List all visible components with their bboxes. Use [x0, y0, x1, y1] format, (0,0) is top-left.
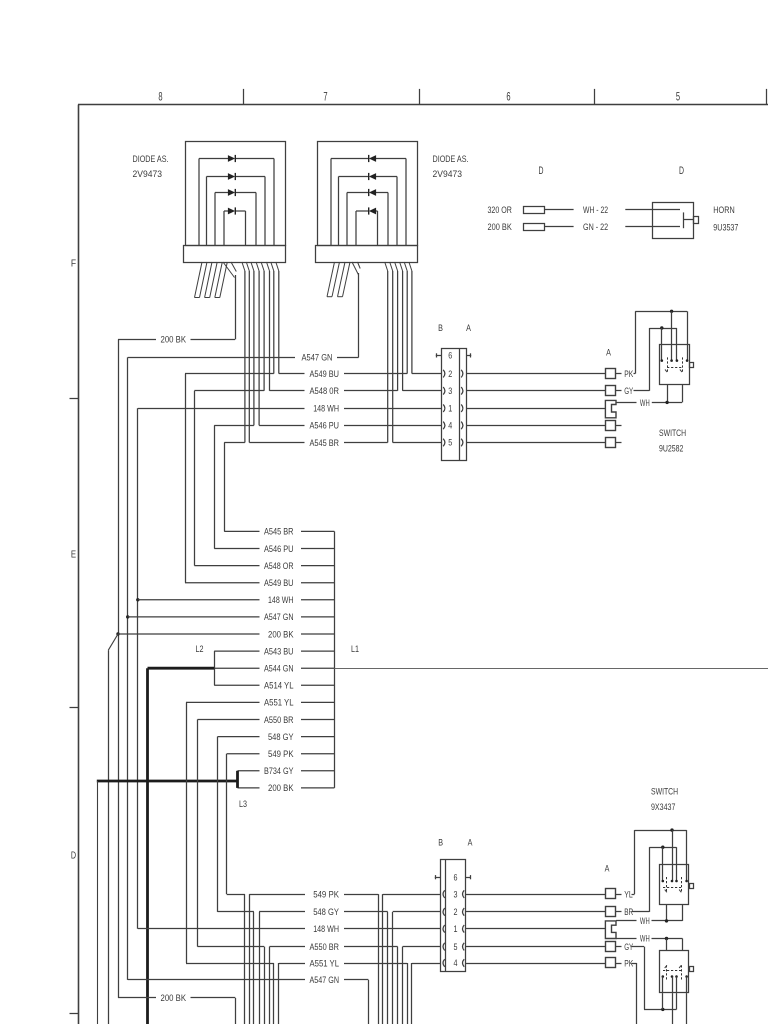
wire drop x259.1 to lower diode assembly U3	[259, 912, 261, 1024]
wire drop x278.8 to lower diode assembly U3	[278, 963, 280, 1024]
switch S3 movable contact a	[665, 965, 667, 981]
connector J1 pin 3 contacts	[443, 387, 463, 395]
wire 548 GY lower row	[218, 911, 441, 913]
svg-text:3: 3	[448, 386, 452, 397]
wire WH from clip	[616, 402, 637, 404]
svg-text:WH: WH	[640, 934, 650, 944]
svg-text:A544 GN: A544 GN	[264, 664, 294, 674]
switch S3 dashed link	[663, 970, 681, 972]
svg-text:YL: YL	[624, 889, 633, 899]
wire drop x249.3 to lower diode assembly U3	[249, 894, 251, 1024]
svg-text:B: B	[438, 837, 443, 847]
bus wire 548 GY lower vertical	[217, 737, 219, 912]
svg-text:549 PK: 549 PK	[313, 889, 339, 899]
svg-text:A549 BU: A549 BU	[310, 369, 340, 379]
svg-text:A514 YL: A514 YL	[264, 681, 294, 691]
diode D1a loop in U1	[199, 155, 274, 245]
wire switch S3 to GY link a	[662, 993, 664, 1009]
svg-text:2: 2	[454, 907, 458, 918]
svg-text:548 GY: 548 GY	[313, 907, 339, 917]
switch S2 dashed link	[663, 887, 681, 889]
bus wire A551 YL lower vertical	[186, 702, 188, 963]
svg-text:200 BK: 200 BK	[161, 335, 187, 345]
wire WH-22 into horn	[625, 209, 680, 211]
terminal connector 320 OR	[524, 207, 545, 214]
diode D2a loop in U2	[331, 155, 406, 245]
wire connector J1 pin 1 to switch terminal	[466, 408, 606, 410]
svg-text:A551 YL: A551 YL	[310, 958, 340, 968]
svg-text:HORN: HORN	[713, 205, 734, 215]
svg-text:B: B	[438, 323, 443, 333]
svg-text:6: 6	[448, 351, 452, 362]
svg-text:320 OR: 320 OR	[488, 205, 513, 215]
connector J1 pin 6 stub left	[436, 353, 441, 357]
wire connector J1 pin 3 to switch terminal	[466, 390, 606, 392]
diode assembly U2 connector strip	[316, 246, 418, 263]
wire switch S3 drop b	[686, 993, 688, 1024]
harness L1 wire B734 GY row	[238, 766, 335, 776]
wire PK top link	[635, 311, 687, 313]
wire 200 BK to GN-22	[544, 226, 574, 228]
diode D2c loop in U2	[347, 189, 388, 245]
svg-text:A547 GN: A547 GN	[310, 975, 340, 985]
svg-text:GY: GY	[624, 386, 633, 396]
switch S1 terminal dash y442.5	[616, 442, 622, 444]
switch S2 terminal at y911.9	[606, 907, 616, 917]
svg-text:549 PK: 549 PK	[268, 749, 294, 759]
diode assembly U1 stub pin 1	[195, 262, 208, 298]
switch S1 terminal dash y390.8	[616, 390, 622, 392]
wire A546 PU upper row	[214, 425, 441, 427]
switch S1 movable contact a	[665, 357, 668, 372]
switch S2 body	[660, 865, 689, 905]
bus wire A547 GN vertical	[127, 357, 129, 980]
diode assembly U1 pin lead 6	[251, 262, 254, 425]
wire switch S3 drop a	[672, 993, 674, 1024]
switch S2 terminal at y946.6	[606, 942, 616, 952]
horn B1 terminal bump	[694, 217, 699, 224]
terminal clip WH lower pin1	[605, 921, 616, 939]
svg-text:200 BK: 200 BK	[488, 222, 513, 232]
switch S1 contact dots	[661, 359, 689, 362]
switch S3 pole wires inside	[663, 977, 687, 994]
svg-text:A548 OR: A548 OR	[264, 561, 294, 571]
wire 320 OR to WH-22	[544, 209, 574, 211]
harness L1 wire A550 BR row	[198, 715, 335, 725]
wire WH1 from clip	[616, 920, 637, 922]
switch S1 terminal dash y373.6	[616, 373, 622, 375]
harness L1 wire A551 YL row	[186, 698, 334, 708]
wire GY top link	[649, 328, 677, 330]
switch S3 body	[660, 951, 689, 993]
connector J2 pin 6 stub right	[466, 875, 471, 879]
diode assembly U2 pin lead to wire A547 GN	[352, 262, 360, 357]
bus wire A550 BR lower vertical	[197, 720, 199, 947]
svg-text:D: D	[71, 851, 76, 862]
wire connector J1 pin 4 to switch terminal	[466, 425, 606, 427]
connector J2 pin 6 stub left	[435, 875, 441, 879]
switch S2 lower housing	[667, 905, 683, 921]
junction dot WH2	[665, 937, 668, 940]
harness L1 wire A514 YL row	[214, 681, 334, 691]
switch S1 lower housing	[668, 384, 683, 402]
switch S2 terminal at y894.1	[606, 889, 616, 899]
svg-text:A: A	[468, 837, 473, 847]
harness L1 wire A549 BU row	[185, 578, 334, 588]
switch S2 button bump	[690, 884, 694, 889]
junction dot YL link	[670, 828, 673, 831]
wire A551 YL lower row	[186, 963, 440, 965]
diode assembly U2 stub pin 2	[338, 262, 351, 297]
switch S1 terminal at y425.4	[606, 421, 616, 431]
svg-text:A551 YL: A551 YL	[264, 698, 294, 708]
diode assembly U2 pin lead 4	[390, 262, 393, 443]
diode D1d loop in U1	[224, 207, 246, 245]
wire A544 GN thick branch	[148, 668, 215, 1024]
svg-text:WH: WH	[640, 398, 650, 408]
diode assembly U1 pin lead 4	[242, 262, 245, 443]
wire drop x378.3 to lower diode assembly U4	[378, 894, 380, 1024]
svg-text:6: 6	[506, 91, 510, 103]
harness L1 wire A546 PU row	[214, 544, 334, 554]
svg-text:L2: L2	[196, 644, 204, 654]
wire drop x402.6 to lower diode assembly U4	[402, 947, 404, 1024]
wire WH2 to switch S3	[652, 938, 683, 940]
svg-text:548 GY: 548 GY	[268, 732, 294, 742]
svg-text:A546 PU: A546 PU	[310, 421, 340, 431]
svg-text:148 WH: 148 WH	[313, 924, 339, 934]
svg-text:SWITCH: SWITCH	[659, 428, 686, 438]
diode assembly U1 pin lead 9	[267, 262, 270, 391]
switch S3 movable contact b	[679, 965, 681, 981]
diode assembly U1 pin lead to wire 200 BK	[223, 262, 236, 339]
svg-text:A: A	[606, 347, 611, 357]
horn B1 case	[653, 203, 694, 239]
diode assembly U2 pin lead 7	[404, 262, 407, 374]
switch S2 terminal dash y894.1	[616, 894, 622, 896]
svg-text:D: D	[539, 165, 544, 177]
border left frame line	[78, 105, 80, 1024]
svg-text:BR: BR	[624, 907, 633, 917]
wire into switch S1 pole d	[676, 328, 678, 361]
svg-text:WH - 22: WH - 22	[583, 205, 608, 215]
diode assembly U1 stub pin 3	[215, 262, 228, 298]
svg-text:A550 BR: A550 BR	[310, 942, 340, 952]
connector J1 pin 4 contacts	[443, 422, 463, 430]
wire PK drop lower	[632, 963, 637, 1024]
wire YL top link	[635, 830, 687, 832]
svg-text:5: 5	[454, 942, 458, 953]
bus wire 200 BK vertical	[118, 339, 120, 998]
harness L1 wire A548 OR row	[194, 561, 334, 571]
svg-text:9U3537: 9U3537	[713, 223, 738, 233]
svg-text:9U2582: 9U2582	[659, 444, 683, 454]
svg-text:2: 2	[448, 369, 452, 380]
switch S1 body	[660, 345, 690, 385]
wire 200 BK drop to lower diode assembly	[235, 998, 237, 1024]
ruler tick right edge	[766, 89, 768, 105]
switch S1 terminal at y442.5	[606, 438, 616, 448]
svg-text:200 BK: 200 BK	[268, 629, 294, 639]
svg-text:A550 BR: A550 BR	[264, 715, 294, 725]
wire A547 GN lower row	[128, 979, 369, 981]
svg-text:4: 4	[454, 958, 458, 969]
wire switch S3 to GY link b	[676, 993, 678, 1009]
svg-text:2V9473: 2V9473	[133, 169, 163, 179]
svg-text:1: 1	[454, 924, 458, 935]
svg-text:A546 PU: A546 PU	[264, 544, 294, 554]
diode assembly U2 outer case	[318, 142, 418, 246]
svg-text:9X3437: 9X3437	[651, 802, 675, 812]
svg-text:L3: L3	[239, 799, 247, 809]
wire connector J2 pin 1 to switch terminal	[466, 928, 606, 930]
switch S2 movable contact b	[679, 877, 681, 892]
svg-text:2V9473: 2V9473	[433, 169, 463, 179]
diode D1b loop in U1	[207, 173, 266, 245]
switch S1 terminal dash y425.4	[616, 425, 622, 427]
diode D2b loop in U2	[339, 173, 398, 245]
diode assembly U2 pin lead 3	[385, 262, 388, 443]
connector J1 pin 2 contacts	[443, 370, 463, 378]
ruler tick 8/7	[243, 89, 245, 105]
diode D1c loop in U1	[215, 189, 256, 245]
svg-text:7: 7	[323, 91, 327, 103]
junction dot A547 GN	[126, 615, 129, 618]
frame tick E/D	[70, 707, 79, 709]
wire BR top link	[649, 847, 676, 849]
svg-text:DIODE AS.: DIODE AS.	[133, 154, 169, 164]
junction dot BR link	[661, 846, 664, 849]
svg-text:148 WH: 148 WH	[313, 404, 339, 414]
wire into switch S2 pole a	[672, 830, 674, 881]
wire GY riser lower	[632, 947, 645, 1010]
wire drop x269.5 to lower diode assembly U3	[269, 947, 271, 1024]
svg-text:L1: L1	[351, 644, 359, 654]
frame tick F/E	[70, 398, 79, 400]
junction dot WH1	[665, 919, 668, 922]
svg-text:A: A	[466, 323, 471, 333]
connector J2 body	[441, 860, 466, 972]
wire WH to switch S1	[652, 402, 682, 404]
wire A549 BU upper row	[185, 373, 441, 375]
switch S1 movable contact b	[680, 357, 683, 372]
wire into switch S2 pole b	[686, 830, 688, 881]
svg-text:5: 5	[676, 91, 680, 103]
wire connector J2 pin 5 to switch terminal	[466, 946, 606, 948]
svg-text:4: 4	[448, 421, 452, 432]
wire GN-22 into horn	[625, 226, 680, 228]
switch S2 terminal at y963.0	[606, 958, 616, 968]
bus wire 148 WH vertical	[137, 408, 139, 929]
diode assembly U1 connector strip	[184, 246, 286, 263]
switch S3 contact dots	[662, 975, 688, 978]
wire connector J1 pin 5 to switch terminal	[466, 442, 606, 444]
svg-text:D: D	[679, 165, 684, 177]
switch S1 terminal at y390.8	[606, 386, 616, 396]
svg-text:148 WH: 148 WH	[268, 595, 294, 605]
diode assembly U1 pin lead 7	[256, 262, 259, 425]
svg-text:1: 1	[448, 403, 452, 414]
svg-text:SWITCH: SWITCH	[651, 787, 678, 797]
switch S3 upper housing	[667, 939, 683, 951]
wire WH1 to switch S2	[652, 920, 683, 922]
wire drop x244.9 to lower diode assembly U3	[244, 894, 246, 1024]
diode D2d loop in U2	[356, 207, 378, 245]
diode assembly U1 pin lead 5	[246, 262, 249, 443]
wire into switch S2 pole c	[662, 847, 664, 881]
harness L1 wire A545 BR row	[224, 527, 334, 537]
svg-text:A549 BU: A549 BU	[264, 578, 294, 588]
wire drop x392.7 to lower diode assembly U4	[392, 912, 394, 1024]
switch S3 button bump	[690, 967, 694, 972]
wire connector J2 pin 2 to switch terminal	[466, 911, 606, 913]
svg-text:200 BK: 200 BK	[161, 993, 187, 1003]
wire WH2 from clip	[616, 938, 637, 940]
connector J1 pin 1 contacts	[443, 404, 463, 412]
junction dot 148 WH	[136, 598, 139, 601]
border ruler line	[78, 104, 768, 106]
switch S2 contact dots	[662, 880, 688, 883]
wire GY bottom link	[644, 1009, 677, 1011]
harness L2 bracket	[214, 651, 216, 685]
wire 549 PK lower row	[227, 894, 441, 896]
wire PK riser	[634, 311, 636, 373]
junction dot PK link	[670, 310, 673, 313]
switch S2 movable contact a	[665, 877, 667, 892]
svg-text:GN - 22: GN - 22	[583, 222, 608, 232]
diode assembly U2 pin lead 5	[395, 262, 398, 391]
switch S2 terminal dash y946.6	[616, 946, 622, 948]
wire connector J2 pin 4 to switch terminal	[466, 963, 606, 965]
harness L1 wire 549 PK row	[227, 749, 335, 759]
frame tick D/C	[70, 1013, 79, 1015]
diode assembly U1 pin lead 8	[261, 262, 264, 391]
connector J1 pin 5 contacts	[443, 439, 463, 447]
switch S1 button bump	[690, 363, 694, 368]
switch S1 terminal at y373.6	[606, 369, 616, 379]
ruler tick 6/5	[594, 89, 596, 105]
horn B1 element	[683, 212, 693, 228]
wire drop x253.9 to lower diode assembly U3	[253, 912, 255, 1024]
diode assembly U2 pin lead 6	[400, 262, 403, 391]
switch S2 terminal dash y963.0	[616, 963, 622, 965]
wire drop x411.9 to lower diode assembly U4	[411, 963, 413, 1024]
ruler tick 7/6	[419, 89, 421, 105]
svg-text:A547 GN: A547 GN	[302, 353, 333, 363]
svg-text:PK: PK	[624, 369, 634, 379]
harness L1 wire A547 GN row	[128, 612, 335, 622]
wire drop x264.1 to lower diode assembly U3	[264, 947, 266, 1024]
svg-text:A543 BU: A543 BU	[264, 646, 294, 656]
wire connector J1 pin 2 to switch terminal	[466, 373, 606, 375]
diode assembly U2 stub pin 1	[327, 262, 340, 297]
wire drop x397.6 to lower diode assembly U4	[397, 947, 399, 1024]
terminal connector 200 BK	[524, 224, 545, 231]
wire A547 GN drop to lower diode assembly U4	[368, 980, 370, 1024]
harness L1 wire 148 WH row	[138, 595, 335, 605]
terminal clip WH pin1	[605, 400, 616, 417]
svg-text:3: 3	[454, 889, 458, 900]
connector J2 pin 4 contacts	[443, 959, 464, 967]
wire drop x387.7 to lower diode assembly U4	[387, 912, 389, 1024]
wire drop x273.8 to lower diode assembly U3	[273, 963, 275, 1024]
switch S2 terminal dash y911.9	[616, 911, 622, 913]
connector J1 pin 6 stub right	[466, 353, 471, 357]
wire BR riser	[632, 847, 650, 912]
bus wire A545 BR vertical	[224, 443, 226, 532]
wire into switch S1 pole a	[671, 311, 673, 360]
svg-text:A545 BR: A545 BR	[310, 438, 340, 448]
wire drop x382.8 to lower diode assembly U4	[382, 894, 384, 1024]
connector J2 pin 5 contacts	[443, 943, 464, 951]
switch S1 dashed link	[667, 367, 682, 369]
diode assembly U1 stub pin 2	[205, 262, 218, 298]
wire 200 BK diagonal branch	[108, 634, 118, 650]
wire GY riser	[634, 328, 650, 391]
harness L1 lead-out wire	[334, 668, 768, 670]
bus wire A546 PU vertical	[214, 425, 216, 548]
diode assembly U2 pin lead 8	[409, 262, 412, 374]
connector J2 pin 2 contacts	[443, 908, 464, 916]
wire connector J2 pin 3 to switch terminal	[466, 894, 606, 896]
wire 200 BK branch vertical	[108, 650, 110, 1024]
svg-text:WH: WH	[640, 916, 650, 926]
harness L1 wire 200 BK row	[238, 783, 335, 793]
connector J1 body	[442, 349, 467, 461]
wire A545 BR upper row	[224, 442, 441, 444]
wire YL riser	[632, 830, 635, 894]
junction dot 200 BK	[116, 632, 119, 635]
junction dot GY link	[660, 326, 663, 329]
svg-text:200 BK: 200 BK	[268, 783, 294, 793]
wire drop x407.2 to lower diode assembly U4	[407, 963, 409, 1024]
junction dot GY bottom	[661, 1008, 664, 1011]
diode assembly U1 pin lead 11	[276, 262, 279, 374]
wire A547 GN upper row	[128, 357, 359, 359]
connector J2 pin 3 contacts	[443, 890, 464, 898]
svg-text:B734 GY: B734 GY	[264, 766, 294, 776]
svg-text:F: F	[71, 259, 76, 270]
wire 200 BK upper row	[118, 339, 235, 341]
connector J2 inner wall	[445, 859, 447, 971]
wire A550 BR lower row	[198, 946, 441, 948]
harness L1 trunk vertical	[334, 531, 336, 788]
svg-text:8: 8	[158, 91, 162, 103]
harness L1 wire 200 BK row	[118, 629, 334, 639]
wire 200 BK lower row	[118, 997, 235, 999]
wire into switch S1 pole c	[661, 328, 663, 361]
svg-text:A548 0R: A548 0R	[310, 386, 340, 396]
diode assembly U1 pin lead 10	[271, 262, 274, 374]
diode assembly U1 outer case	[186, 142, 286, 246]
svg-text:A547 GN: A547 GN	[264, 612, 294, 622]
wire 148 WH lower row	[138, 928, 441, 930]
wire into switch S1 pole b	[687, 311, 689, 360]
harness L1 wire A543 BU row	[214, 646, 334, 656]
connector J2 pin 1 contacts	[443, 925, 464, 933]
connector J1 inner wall	[459, 348, 461, 461]
svg-text:A545 BR: A545 BR	[264, 527, 294, 537]
junction dot WH	[665, 401, 668, 404]
svg-text:A: A	[605, 863, 610, 873]
svg-text:DIODE AS.: DIODE AS.	[433, 154, 469, 164]
svg-text:E: E	[71, 550, 76, 561]
svg-text:6: 6	[454, 872, 458, 883]
bus wire A549 BU vertical	[185, 374, 187, 583]
wire 148 WH upper row	[138, 408, 441, 410]
wire A548 0R upper row	[194, 390, 441, 392]
wire into switch S2 pole d	[676, 847, 678, 881]
